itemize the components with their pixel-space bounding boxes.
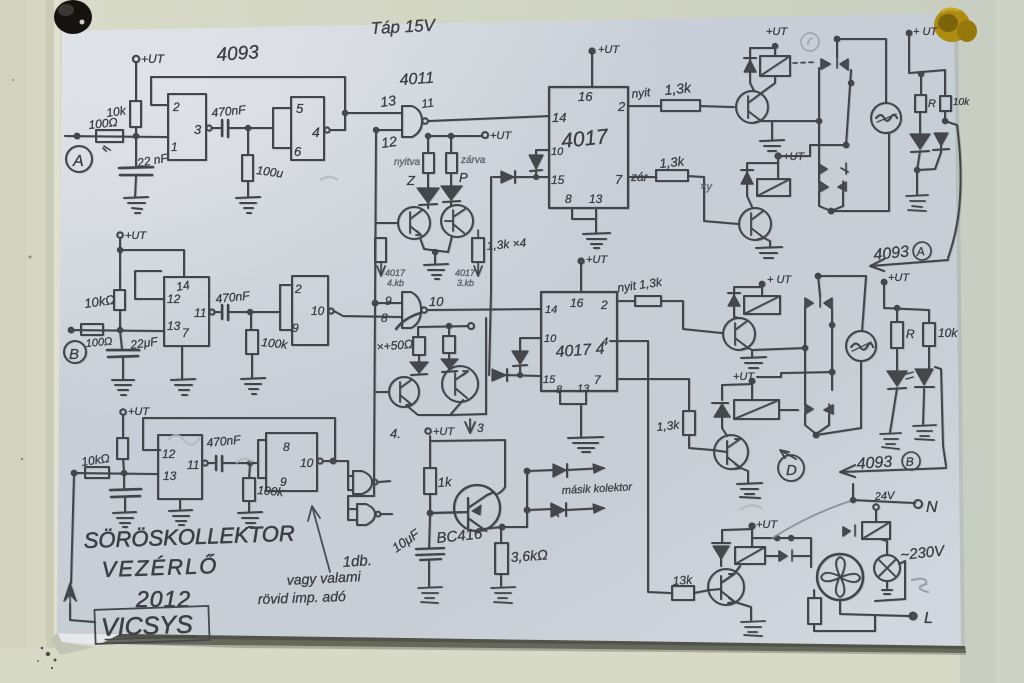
terminal N circle bbox=[914, 500, 922, 508]
svg-text:4011: 4011 bbox=[399, 70, 435, 89]
capacitor C2 470nF bbox=[222, 120, 228, 137]
wire bbox=[122, 415, 124, 438]
svg-text:12: 12 bbox=[162, 447, 176, 461]
switch S4 contacts lower bbox=[805, 404, 833, 415]
svg-text:2: 2 bbox=[600, 298, 608, 312]
resistor R6 100k vertical bbox=[250, 313, 252, 330]
resistor R17 bbox=[915, 95, 926, 112]
svg-text:+UT: +UT bbox=[433, 426, 455, 438]
ground bbox=[238, 512, 262, 527]
relay K6 coil bbox=[735, 547, 765, 564]
IC U6 4017 second bbox=[541, 292, 617, 391]
svg-text:+UT: +UT bbox=[490, 130, 512, 142]
svg-text:1: 1 bbox=[171, 140, 178, 154]
transistor Q5 bbox=[736, 91, 768, 123]
svg-text:nyit: nyit bbox=[631, 85, 652, 101]
ground bbox=[568, 437, 603, 452]
wire lamp right loop bbox=[875, 561, 905, 601]
arrow marker up bbox=[64, 583, 76, 604]
wire pin12 input vertical net bbox=[374, 130, 402, 465]
resistor Rcol left with arrow bbox=[375, 238, 386, 262]
resistor R20 10k bbox=[923, 323, 935, 346]
wire pin4 long vertical bbox=[610, 341, 672, 593]
resistor RZ vertical bbox=[423, 153, 434, 173]
node +UT mid bbox=[775, 153, 780, 158]
node +UT top bbox=[589, 48, 594, 53]
ground bbox=[491, 587, 515, 603]
svg-text:zárva: zárva bbox=[460, 155, 486, 166]
svg-text:10k: 10k bbox=[953, 97, 970, 108]
svg-text:+UT: +UT bbox=[756, 519, 778, 531]
wire pin15-1 bbox=[521, 176, 549, 178]
oscillator C +UT terminal bbox=[120, 409, 126, 415]
svg-text:+UT: +UT bbox=[125, 230, 147, 242]
wire bracket to gate U1B bbox=[268, 108, 291, 148]
svg-text:+UT: +UT bbox=[888, 272, 910, 284]
svg-text:B: B bbox=[905, 454, 914, 469]
svg-text:10: 10 bbox=[300, 456, 314, 470]
light arrows bbox=[906, 372, 913, 379]
node B circle bbox=[64, 341, 86, 363]
svg-text:13: 13 bbox=[589, 192, 603, 206]
svg-text:10k: 10k bbox=[938, 326, 958, 340]
ground bbox=[112, 380, 134, 395]
wire IC ground B bbox=[181, 346, 183, 378]
faint pencil smudges bbox=[168, 177, 762, 510]
resistor R8 100ohm horizontal bbox=[85, 467, 109, 478]
op-gate U4C 4011 bbox=[353, 471, 372, 494]
faint circled C bbox=[801, 33, 819, 51]
svg-text:1,3k: 1,3k bbox=[656, 418, 681, 434]
resistor R4 10k vertical bbox=[114, 290, 125, 310]
wire to grounds bbox=[890, 388, 924, 432]
IC gate U3B 4093 bbox=[266, 433, 317, 491]
diode D4 horizontal into pin15-2 bbox=[506, 369, 541, 381]
transistor Q7 bbox=[723, 318, 755, 350]
svg-text:4017 4: 4017 4 bbox=[555, 341, 605, 361]
wire emitter ground bbox=[735, 602, 751, 620]
node +UT supply A terminal bbox=[133, 56, 139, 62]
wire bracket to gate U3B bbox=[258, 440, 266, 478]
svg-text:13: 13 bbox=[577, 383, 590, 395]
svg-text:4093: 4093 bbox=[216, 42, 260, 66]
wire meter loop bbox=[831, 39, 889, 211]
meter M1 circle bbox=[871, 103, 901, 133]
wire right loop to 4093B bbox=[935, 367, 946, 466]
resistor R14 50ohm bbox=[413, 337, 425, 355]
svg-text:16: 16 bbox=[578, 89, 593, 104]
svg-text:P: P bbox=[459, 170, 468, 185]
svg-text:11: 11 bbox=[187, 458, 199, 472]
wire dashed relay linkage bbox=[793, 62, 816, 63]
wire pin9 bbox=[375, 302, 402, 304]
wire pins 8 13 bracket 2 bbox=[560, 391, 586, 436]
resistor Rcol right with arrow bbox=[472, 238, 484, 262]
wire emitter ground2 bbox=[764, 238, 770, 246]
IC U5 4017 first bbox=[549, 87, 628, 208]
ground bbox=[913, 425, 936, 440]
svg-text:8: 8 bbox=[565, 192, 572, 206]
svg-text:12: 12 bbox=[380, 133, 398, 151]
resistor R12 13k bbox=[672, 586, 694, 600]
svg-text:2: 2 bbox=[172, 100, 180, 114]
svg-text:R: R bbox=[928, 98, 936, 110]
wire feedback A bbox=[151, 77, 345, 130]
svg-text:zár: zár bbox=[630, 170, 649, 184]
ground bbox=[741, 357, 766, 368]
svg-text:4: 4 bbox=[312, 124, 320, 140]
switch S1 contacts top bbox=[821, 57, 848, 70]
svg-text:rövid imp. adó: rövid imp. adó bbox=[258, 588, 347, 607]
wire bbox=[229, 127, 268, 129]
annotation arrow 4093 B bbox=[840, 465, 946, 477]
svg-text:7: 7 bbox=[615, 172, 623, 187]
transistor Q1 Z driver: +UT rail bbox=[482, 132, 488, 138]
ground bbox=[583, 233, 610, 248]
svg-text:A: A bbox=[72, 153, 84, 170]
op-gate U4B 4011 NAND bbox=[402, 292, 421, 328]
ground bbox=[424, 264, 448, 279]
mark near node A bbox=[103, 146, 110, 151]
diode D17 freewheel K4 bbox=[712, 384, 752, 436]
wire IC ground C bbox=[179, 499, 181, 510]
svg-text:11: 11 bbox=[194, 306, 206, 320]
wire to bottom node bbox=[819, 192, 843, 211]
LED D6 bbox=[442, 353, 457, 372]
wire gate outputs bbox=[378, 481, 392, 514]
svg-text:+UT: +UT bbox=[766, 26, 788, 38]
resistor R21 1k bbox=[424, 468, 436, 494]
IC gate U1B 4093 bbox=[291, 97, 324, 160]
circled D annotation bbox=[778, 455, 804, 481]
wire emitter ground4 bbox=[741, 468, 748, 482]
svg-text:8: 8 bbox=[381, 311, 388, 325]
LED D9 bbox=[911, 112, 929, 152]
svg-text:3: 3 bbox=[194, 122, 202, 137]
svg-text:nyitva: nyitva bbox=[394, 157, 421, 168]
node junction bbox=[134, 134, 138, 138]
oscillator B +UT terminal bbox=[117, 232, 123, 238]
wire bracket to gate U2B bbox=[280, 285, 292, 330]
capacitor C6 470nF bbox=[208, 462, 214, 464]
transistor Q8 BC416 bbox=[454, 485, 500, 531]
svg-text:D: D bbox=[786, 462, 797, 479]
svg-text:2: 2 bbox=[294, 282, 302, 296]
relay K1 coil bbox=[760, 56, 790, 76]
wire relay6 frame bbox=[722, 526, 752, 547]
LED D16 bbox=[712, 543, 730, 566]
wire rail C bbox=[74, 473, 158, 474]
svg-text:9: 9 bbox=[292, 321, 299, 335]
IC gate U1A 4093 bbox=[168, 94, 206, 160]
transistor Q2 P bbox=[441, 205, 473, 237]
LED D5 bbox=[411, 355, 427, 375]
diode D1 vertical from pin10 bbox=[530, 150, 549, 177]
capacitor C1 22nF bbox=[135, 137, 137, 167]
wire rail B bbox=[71, 330, 164, 331]
svg-text:+UT: +UT bbox=[733, 371, 755, 383]
wire lamp loop bbox=[816, 276, 866, 435]
wire join to ground bbox=[917, 151, 941, 194]
wire contact to fan bbox=[765, 556, 811, 567]
node A circle bbox=[66, 146, 92, 172]
paper curled bottom-left corner bbox=[57, 633, 120, 645]
ground bbox=[756, 247, 782, 258]
op-gate U4D 4011 bbox=[357, 504, 375, 525]
resistor R18 10k bbox=[940, 96, 951, 111]
svg-text:13k: 13k bbox=[672, 573, 693, 588]
svg-text:5: 5 bbox=[296, 101, 304, 116]
transistor Q9 bbox=[708, 569, 744, 605]
ground bbox=[741, 621, 765, 636]
wire gate inputs bbox=[348, 461, 374, 520]
wire out flourish bbox=[396, 313, 420, 329]
op-gate U4A 4011 NAND bbox=[402, 106, 422, 137]
svg-text:100Ω: 100Ω bbox=[85, 336, 113, 350]
wire collector up bbox=[734, 566, 740, 574]
ground bbox=[124, 197, 148, 213]
svg-text:13: 13 bbox=[163, 469, 177, 483]
wire emitter to ground bbox=[761, 121, 772, 140]
wire pin7-2 bbox=[617, 379, 689, 411]
svg-text:2: 2 bbox=[617, 99, 626, 114]
svg-text:13: 13 bbox=[167, 319, 181, 333]
annotation arrow 4093 A bbox=[870, 259, 948, 271]
relay K5 coil bbox=[862, 522, 890, 539]
annotation arrow to gate bbox=[308, 506, 330, 572]
IC gate U2B 4093 bbox=[292, 276, 328, 345]
wire feedback B bracket bbox=[135, 271, 164, 299]
wire fan bottom bbox=[840, 600, 875, 615]
LED D13 bbox=[915, 346, 934, 391]
resistor RP vertical bbox=[446, 153, 457, 173]
svg-text:14: 14 bbox=[545, 304, 557, 316]
fan motor M3 bbox=[817, 554, 863, 600]
wire contact verticals 2 bbox=[805, 307, 832, 404]
LED bank 2 +UT bbox=[882, 280, 887, 285]
resistor R22 3.6k bbox=[495, 543, 508, 574]
relay K5 area: +UT terminal bbox=[749, 523, 754, 528]
switch S6 contact bbox=[843, 525, 855, 536]
relay K3 coil bbox=[744, 296, 780, 314]
svg-text:11: 11 bbox=[420, 95, 434, 111]
diode D8 freewheel bbox=[741, 163, 778, 207]
capacitor C5 22nF bbox=[123, 474, 125, 489]
lamp M2 circle bbox=[846, 331, 876, 361]
paper bottom shadow edge bbox=[57, 633, 966, 653]
wire emitter to contacts2 bbox=[752, 348, 805, 350]
svg-text:8: 8 bbox=[556, 384, 563, 396]
relay K4 coil bbox=[734, 400, 779, 419]
wire output C node bbox=[323, 460, 348, 462]
wall left strip texture bbox=[0, 0, 62, 683]
IC gate U3A 4093 bbox=[158, 435, 202, 499]
switch S5 contact bbox=[779, 550, 792, 561]
wire bbox=[119, 238, 121, 290]
svg-text:+UT: +UT bbox=[141, 52, 166, 66]
wire to pin14 top bbox=[120, 250, 184, 277]
ground squiggle bbox=[906, 195, 928, 211]
node +UT top bbox=[578, 258, 583, 263]
svg-text:10: 10 bbox=[429, 294, 444, 309]
ground bbox=[241, 378, 265, 394]
wire emitter rail bbox=[407, 400, 486, 415]
lamp M4 230V bbox=[874, 555, 900, 581]
svg-text:R: R bbox=[906, 327, 915, 341]
svg-text:+UT: +UT bbox=[598, 44, 620, 56]
resistor R15 50ohm bbox=[443, 336, 455, 353]
wire output A to 4011 bbox=[330, 113, 402, 130]
svg-text:+UT: +UT bbox=[783, 151, 805, 163]
switch S2 contacts lower bbox=[819, 163, 848, 174]
arrow down 3 bbox=[465, 419, 475, 433]
ground bbox=[113, 512, 136, 527]
svg-text:4017: 4017 bbox=[455, 268, 476, 278]
paper right edge shade bbox=[954, 13, 965, 646]
relay K2 coil bbox=[757, 179, 790, 196]
resistor R19 bbox=[891, 322, 903, 348]
wire diode net to pin15 bbox=[489, 177, 491, 375]
LED Z bbox=[419, 173, 437, 208]
capacitor C3 22uF bbox=[120, 331, 122, 350]
svg-text:+ UT: + UT bbox=[913, 26, 938, 38]
capacitor C7 10uF bbox=[429, 514, 430, 548]
ground bbox=[236, 197, 260, 213]
wire bbox=[212, 127, 221, 129]
wire base from zar resistor bbox=[704, 177, 739, 224]
svg-text:16: 16 bbox=[570, 296, 584, 310]
diode D15 output arrow bbox=[527, 503, 604, 516]
wire to output diodes bbox=[504, 470, 527, 527]
wire horizontals relay6 bbox=[752, 538, 811, 556]
resistor R3 100k vertical bbox=[247, 129, 249, 155]
wire +UT mid2 bbox=[757, 372, 832, 377]
wire feedback C bbox=[143, 418, 335, 461]
capacitor C4 470nF bbox=[214, 311, 220, 313]
svg-text:A: A bbox=[915, 244, 925, 259]
diode D11 freewheel bbox=[728, 287, 762, 318]
svg-text:4.: 4. bbox=[390, 426, 401, 441]
svg-text:4017: 4017 bbox=[385, 268, 406, 278]
node +UT relay1 bbox=[773, 44, 777, 48]
LED bank 1 +UT bbox=[907, 31, 912, 36]
transistor Q4 driver bank right bbox=[442, 366, 478, 402]
resistor R5 100ohm horizontal bbox=[81, 324, 103, 335]
svg-text:1,3k: 1,3k bbox=[664, 79, 693, 98]
+UT bottom terminal bbox=[425, 428, 431, 434]
svg-text:100k: 100k bbox=[261, 335, 289, 352]
resistor R11 1.3k nyit2 bbox=[617, 300, 635, 302]
resistor R16 1.3k zar bbox=[628, 176, 656, 178]
ground bbox=[880, 433, 901, 449]
wire bbox=[135, 127, 137, 136]
svg-text:6: 6 bbox=[294, 144, 302, 159]
svg-text:N: N bbox=[926, 499, 938, 516]
diode D7 freewheel bbox=[744, 48, 775, 91]
svg-text:9: 9 bbox=[385, 294, 392, 308]
svg-text:3: 3 bbox=[477, 421, 484, 435]
svg-text:3.kb: 3.kb bbox=[457, 278, 474, 288]
resistor R7 10k vertical bbox=[117, 438, 128, 459]
svg-text:3,6kΩ: 3,6kΩ bbox=[510, 546, 548, 565]
ground bbox=[418, 587, 442, 603]
wire main rail A bbox=[65, 136, 168, 137]
svg-text:9: 9 bbox=[280, 475, 287, 489]
svg-text:13: 13 bbox=[379, 92, 397, 110]
svg-text:+UT: +UT bbox=[586, 254, 608, 266]
svg-text:Táp 15V: Táp 15V bbox=[370, 16, 437, 38]
ground bbox=[760, 140, 784, 151]
resistor R9 100k vertical bbox=[249, 464, 250, 478]
wire faint diagonal to N rail bbox=[772, 500, 853, 538]
LED D10 bbox=[933, 111, 949, 152]
wire emitters to ground bbox=[420, 236, 452, 263]
resistor R10 1.3k nyit bbox=[628, 105, 661, 107]
LED P bbox=[443, 173, 460, 206]
svg-text:4093: 4093 bbox=[856, 454, 893, 473]
diode D14 output arrow bbox=[527, 464, 604, 477]
VICSYS box bbox=[94, 606, 209, 644]
BC416 +UT terminal bbox=[430, 436, 505, 494]
svg-text:+UT: +UT bbox=[128, 406, 150, 418]
svg-text:12: 12 bbox=[167, 292, 181, 306]
wire emitter to 3.6k bbox=[483, 527, 501, 543]
svg-text:8: 8 bbox=[283, 440, 290, 454]
ground bbox=[171, 379, 195, 395]
smudge specks bottom-left bbox=[37, 647, 56, 669]
transistor Q10 bbox=[714, 435, 748, 469]
wall specks bbox=[12, 79, 121, 575]
wall bottom strip bbox=[0, 648, 1024, 683]
yellow push pin top-right bbox=[934, 8, 970, 42]
svg-text:1,3k: 1,3k bbox=[659, 153, 686, 171]
relay K3 +UT bbox=[760, 282, 765, 287]
resistor R1 10k vertical bbox=[130, 101, 141, 127]
diode D2 horizontal bbox=[493, 171, 521, 183]
wire emitter ground3 bbox=[748, 348, 752, 357]
circled A bbox=[913, 242, 931, 260]
svg-text:×y: ×y bbox=[700, 181, 713, 193]
wire N rail bbox=[853, 484, 915, 503]
wire U4A out to 4017 pin14 bbox=[428, 116, 549, 121]
circled B bbox=[902, 452, 920, 470]
wire vertical mid net bbox=[485, 318, 487, 414]
black push pin top-left bbox=[54, 0, 92, 34]
terminal L bbox=[910, 613, 917, 620]
wire contact verticals bbox=[819, 68, 851, 183]
svg-text:14: 14 bbox=[552, 110, 566, 125]
svg-text:+ UT: + UT bbox=[767, 274, 792, 286]
diode D3 vertical from pin10-2 bbox=[513, 338, 541, 375]
svg-text:15: 15 bbox=[543, 374, 556, 386]
wire relay5 to rail circle terminal bbox=[873, 504, 879, 510]
wire U4B out to 4017-2 pin14 bbox=[427, 309, 541, 310]
svg-text:15: 15 bbox=[551, 173, 565, 187]
svg-text:B: B bbox=[69, 346, 79, 363]
IC gate U2A 4093 bbox=[164, 277, 209, 346]
svg-text:1k: 1k bbox=[437, 474, 453, 490]
transistor Q3 driver bank left bbox=[389, 377, 419, 407]
resistor R13 1.3k vertical bbox=[683, 411, 695, 435]
wire bbox=[135, 62, 137, 101]
wire left edge down to VICSYS bbox=[70, 473, 95, 622]
wire relay4 right to contacts bbox=[779, 409, 798, 411]
svg-text:24V: 24V bbox=[874, 490, 897, 503]
svg-text:4.kb: 4.kb bbox=[387, 278, 404, 288]
faint scribble S bbox=[912, 579, 928, 592]
4x50 +UT terminal bbox=[468, 323, 474, 329]
wire long loop to 4093A arrow bbox=[945, 121, 961, 258]
